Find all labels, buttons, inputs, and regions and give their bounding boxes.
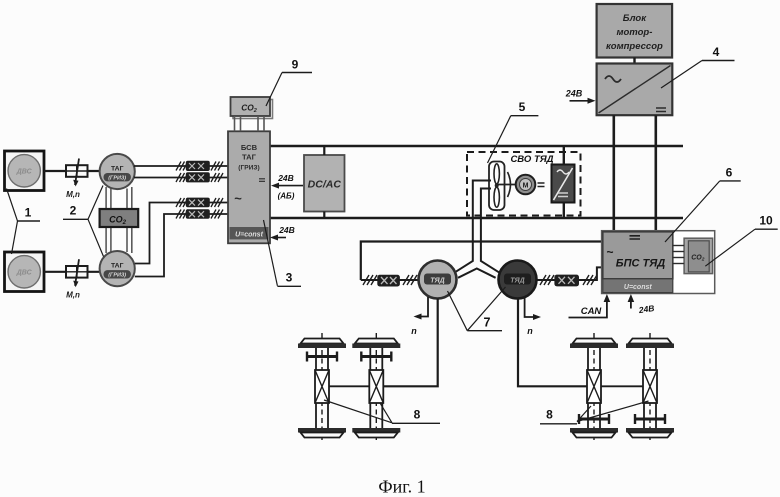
svg-text:n: n [527,326,533,336]
wheelset 2 right bogie [626,333,674,441]
CO2 sensor box 10 [684,238,713,273]
shaft DVS1 to TAG1 [44,170,100,172]
svg-text:ДВС: ДВС [16,270,33,277]
label 8 left [324,400,440,423]
label 4 [661,45,735,88]
svg-text:1: 1 [25,206,32,220]
wire converter4 to BPS right [654,115,657,231]
shaft DVS2 to TAG2 [44,271,100,273]
converter unit 4 [597,64,673,116]
wheelset 1 right bogie [570,333,618,441]
svg-text:(ГРИЗ): (ГРИЗ) [108,176,126,182]
DC/AC converter [304,146,345,218]
cable hatch right of left coupling [403,275,417,285]
link pipes between generators [106,187,132,253]
cable connector box 4 [186,209,210,219]
stub compressor to converter [633,58,635,64]
drive shaft right motor to gearbox [518,299,587,387]
label 7 [448,287,506,331]
fan [489,162,505,211]
svg-text:ТАГ: ТАГ [111,166,124,173]
wheelset 2 left bogie [352,333,400,441]
bus DC link top [269,145,683,148]
svg-text:n: n [411,326,417,336]
drive shaft left motor to gearbox [383,299,437,387]
24V arrow into converter 4 [565,89,596,104]
svg-text:8: 8 [414,408,421,422]
link lines BPS to CO2 [673,246,684,264]
rectifier unit BSV TAG (3) [228,131,270,243]
svg-text:ТАГ: ТАГ [242,153,257,162]
cable TAG1 row1 [134,165,228,167]
generator TAG2 (bottom) [100,251,135,286]
n arrow right motor [525,297,541,336]
svg-text:ТЯД: ТЯД [510,277,524,284]
svg-text:БПС ТЯД: БПС ТЯД [616,258,665,270]
svg-text:М,n: М,n [66,190,80,199]
axle link left bogie [329,385,369,387]
svg-text:Фиг. 1: Фиг. 1 [378,477,425,497]
svg-text:компрессор: компрессор [606,41,663,52]
power cable loop left motor to BPS [361,242,602,281]
svg-text:5: 5 [519,100,526,114]
CO2 box between generators [100,209,139,227]
label 6 [665,166,741,243]
n arrow left motor [411,297,428,336]
link motor M to SVO converter [538,183,545,187]
svg-text:7: 7 [484,316,491,330]
torque sensor M,n (top) [66,159,88,200]
svg-text:~: ~ [234,191,242,206]
24V arrow into BSV bottom [270,225,295,241]
svg-text:10: 10 [759,214,773,228]
wire SVO converter to bottom bus [563,203,565,219]
svg-text:9: 9 [292,58,299,72]
CAN arrow into BPS [569,294,611,318]
BPS TYaD converter unit 6 [603,232,673,293]
cable connector (left motor) [377,275,400,287]
svg-text:мотор-: мотор- [616,27,652,38]
24V arrow into BPS [628,294,655,315]
svg-text:DC/AC: DC/AC [308,179,342,191]
shaft fan to motor M [497,184,516,186]
cable TAG2 row4 [135,214,228,277]
svg-text:ТАГ: ТАГ [111,263,124,270]
air arc [508,172,511,197]
cable TAG1 row2 [134,177,228,179]
24V (AB) arrow into BSV [271,173,303,201]
cable connector (right motor) [554,275,579,287]
engine DVS 2 (bottom) [5,252,45,292]
label 5 [488,100,539,163]
svg-text:4: 4 [713,45,720,59]
svg-text:3: 3 [286,271,293,285]
svg-text:24В: 24В [277,173,294,183]
label 1 [7,189,41,255]
bus DC link bottom [269,217,683,220]
svg-text:U=const: U=const [235,232,263,239]
label 3 [264,220,302,286]
cooling unit SVO TYaD dashed box [467,152,581,216]
cable connector box 1 [186,161,210,171]
svg-text:CAN: CAN [581,306,603,317]
traction motor TYaD left [419,261,457,299]
svg-text:ДВС: ДВС [16,169,33,176]
label 9 [266,58,312,107]
svg-text:6: 6 [726,166,733,180]
BPS TYaD outer case [602,231,715,294]
cable hatch right of right coupling [583,275,597,285]
svg-text:8: 8 [546,408,553,422]
svg-text:(ГРИЗ): (ГРИЗ) [238,165,259,172]
label 8 right [540,401,649,424]
svg-text:~: ~ [606,245,613,259]
generator TAG1 (top) [100,154,135,189]
svg-text:2: 2 [70,204,77,218]
axle link right bogie [601,385,643,387]
cable hatch left of right coupling [540,275,554,285]
label 2 [63,186,104,257]
pipes CO2 to BSV [235,116,265,131]
svg-text:М: М [523,183,529,190]
svg-text:Блок: Блок [623,13,647,24]
fan motor M [516,175,536,195]
svg-text:24В: 24В [565,89,583,99]
cable hatch marks right of connectors [211,162,223,219]
svg-text:БСВ: БСВ [241,143,258,152]
wire SVO converter to top bus [563,146,565,165]
svg-text:24В: 24В [278,225,295,235]
wheelset 1 left bogie [298,333,346,441]
motor-compressor unit [597,4,673,58]
cable hatch marks left of connectors [176,162,188,219]
svg-text:(ГРИЗ): (ГРИЗ) [108,273,126,279]
CO2 sensor box 9 on top of BSV [231,97,273,119]
cable TAG2 row3 [135,203,228,264]
svg-text:U=const: U=const [624,284,652,291]
svg-text:ТЯД: ТЯД [430,277,444,284]
svg-text:М,n: М,n [66,291,80,300]
wire converter4 to BPS left [612,115,615,231]
label 10 [705,214,777,267]
svg-text:СВО ТЯД: СВО ТЯД [510,154,553,165]
cable hatch left of left coupling [363,275,377,285]
cable connector box 3 [186,198,210,208]
engine DVS 1 (top) [5,151,45,191]
cable right motor to BPS [537,267,603,280]
torque sensor M,n (bottom) [66,259,88,299]
air duct to traction motors [454,181,501,278]
svg-text:(АБ): (АБ) [278,192,295,201]
SVO converter [552,165,575,203]
traction motor TYaD right [499,261,537,299]
cable left motor left segment [361,279,419,281]
cable connector box 2 [186,172,210,182]
